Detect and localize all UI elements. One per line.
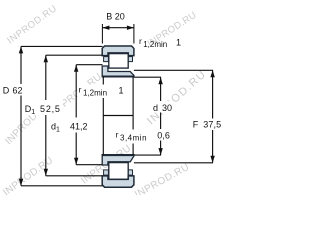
inner ring bottom section: [102, 155, 134, 165]
d dimension line: [160, 77, 162, 155]
svg-text:1: 1: [176, 38, 181, 48]
wire left face line: [102, 77, 104, 156]
roller bottom: [109, 163, 128, 180]
cage bottom-right: [128, 170, 133, 175]
label D 62: [2, 84, 24, 96]
label D1 52,5: [24, 100, 63, 115]
svg-text:1,2min: 1,2min: [143, 40, 167, 49]
outer ring top section: [102, 46, 134, 56]
B extension left: [101, 24, 103, 44]
bore bottom edge thick: [102, 154, 135, 156]
D leader bottom: [21, 185, 103, 187]
D leader top: [21, 45, 103, 47]
svg-text:F: F: [193, 120, 199, 130]
label d 30: [152, 101, 173, 113]
B extension right: [133, 24, 135, 44]
d1 leader bottom: [76, 164, 102, 166]
F leader bottom: [134, 162, 213, 164]
svg-text:0,6: 0,6: [157, 131, 170, 141]
cage bottom-left: [104, 170, 109, 175]
bore top edge thick: [102, 76, 135, 78]
label F 37,5: [192, 119, 229, 131]
d1 dimension line: [75, 65, 77, 165]
svg-text:37,5: 37,5: [203, 120, 221, 130]
F dimension line: [212, 70, 214, 163]
wire bore axis line: [103, 115, 133, 117]
svg-text:B: B: [106, 11, 112, 21]
D1 leader top: [46, 54, 103, 56]
label 0,6: [156, 129, 172, 141]
svg-text:20: 20: [115, 11, 125, 21]
svg-text:r: r: [116, 130, 119, 140]
d1 leader top: [76, 64, 102, 66]
svg-text:1,2min: 1,2min: [83, 89, 107, 98]
inner ring top section: [102, 66, 134, 76]
svg-text:62: 62: [13, 86, 23, 96]
svg-text:52,5: 52,5: [40, 104, 61, 114]
svg-text:r: r: [79, 85, 82, 95]
cage top-left: [104, 57, 109, 62]
D dimension line: [20, 46, 22, 185]
svg-text:1: 1: [119, 85, 124, 95]
D1 dimension line: [45, 55, 47, 176]
label r 3,4min: [115, 130, 153, 144]
label r 1,2min 1 lower: [78, 85, 124, 99]
F leader top: [134, 69, 213, 71]
svg-text:3,4min: 3,4min: [120, 134, 147, 143]
svg-text:r: r: [139, 36, 142, 46]
D1 leader bottom: [46, 175, 103, 177]
cage top-right: [128, 57, 133, 62]
roller top: [109, 54, 128, 69]
svg-text:d: d: [153, 103, 158, 113]
svg-text:41,2: 41,2: [70, 122, 88, 132]
B dimension line: [102, 27, 133, 29]
d leader bottom: [134, 154, 161, 156]
svg-text:30: 30: [162, 103, 172, 113]
svg-text:D: D: [3, 86, 10, 96]
label d1 41,2: [50, 118, 90, 133]
outer ring bottom section: [102, 176, 134, 187]
d leader top: [134, 76, 161, 78]
wire right face line: [132, 77, 134, 156]
